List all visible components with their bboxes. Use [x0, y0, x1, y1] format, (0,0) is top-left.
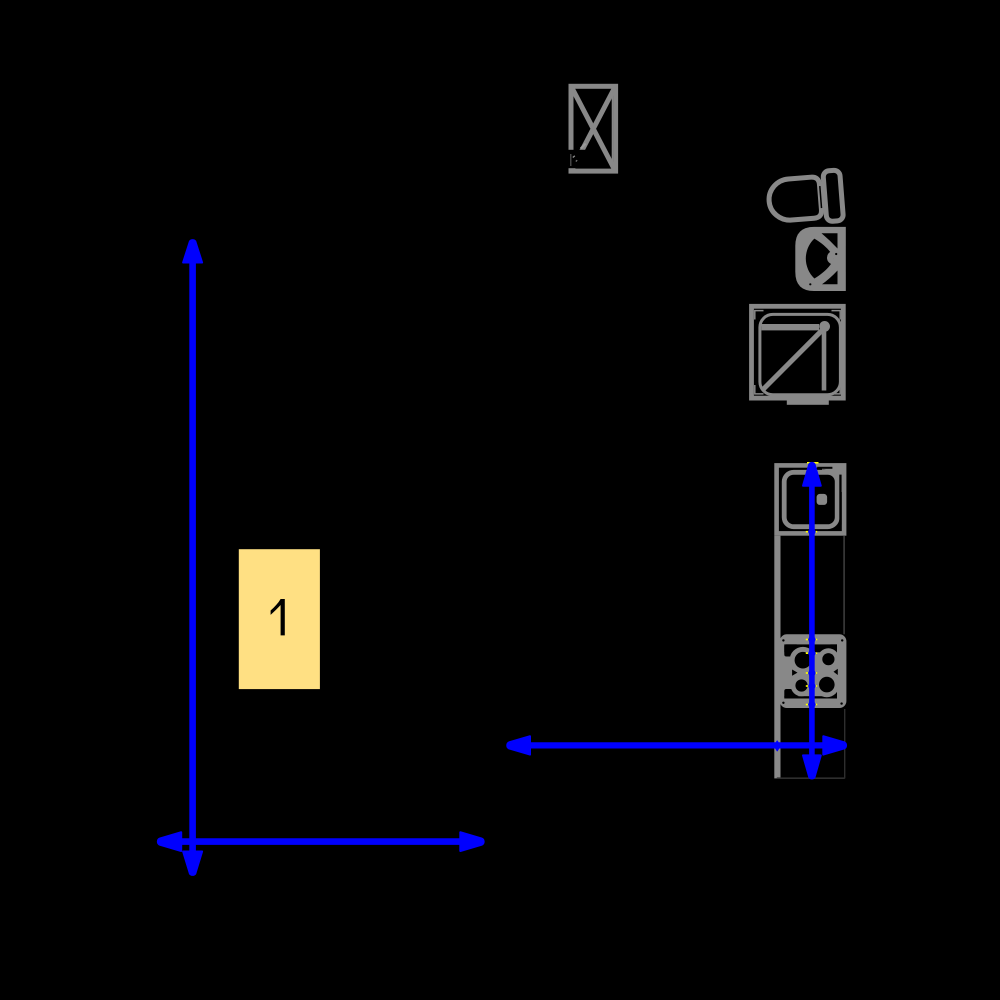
- cooktop: [780, 634, 847, 708]
- yellow selection ticks on kitchen arrow: [806, 463, 820, 705]
- washbasin: [795, 227, 846, 291]
- dimension arrow vertical left: [183, 240, 202, 875]
- dimension arrow horizontal bottom: [158, 832, 484, 851]
- dimension arrow horizontal right: [507, 736, 846, 754]
- dimension arrow vertical kitchen: [803, 463, 821, 779]
- kitchen counter bottom section: [777, 709, 846, 779]
- label 1: [271, 599, 285, 635]
- yellow room label box: [239, 549, 320, 689]
- window W1: [568, 86, 615, 171]
- shower: [752, 306, 844, 405]
- kitchen counter middle section: [774, 536, 845, 779]
- kitchen sink unit: [777, 465, 845, 533]
- toilet: [767, 170, 843, 226]
